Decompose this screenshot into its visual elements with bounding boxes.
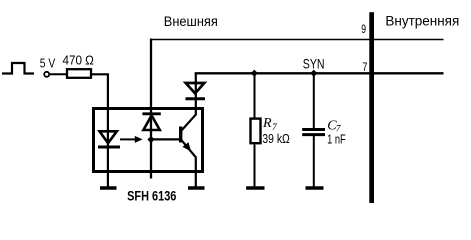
svg-text:9: 9 (361, 24, 366, 36)
svg-text:R: R (262, 116, 272, 131)
svg-text:1 nF: 1 nF (327, 132, 346, 147)
svg-text:SFH 6136: SFH 6136 (127, 189, 177, 204)
svg-text:Внутренняя: Внутренняя (385, 13, 459, 29)
svg-text:7: 7 (362, 60, 367, 74)
svg-text:470 Ω: 470 Ω (63, 53, 95, 68)
svg-text:5 V: 5 V (40, 55, 56, 70)
svg-text:SYN: SYN (303, 55, 325, 71)
svg-text:39 kΩ: 39 kΩ (262, 131, 290, 146)
svg-text:Внешняя: Внешняя (164, 13, 218, 29)
